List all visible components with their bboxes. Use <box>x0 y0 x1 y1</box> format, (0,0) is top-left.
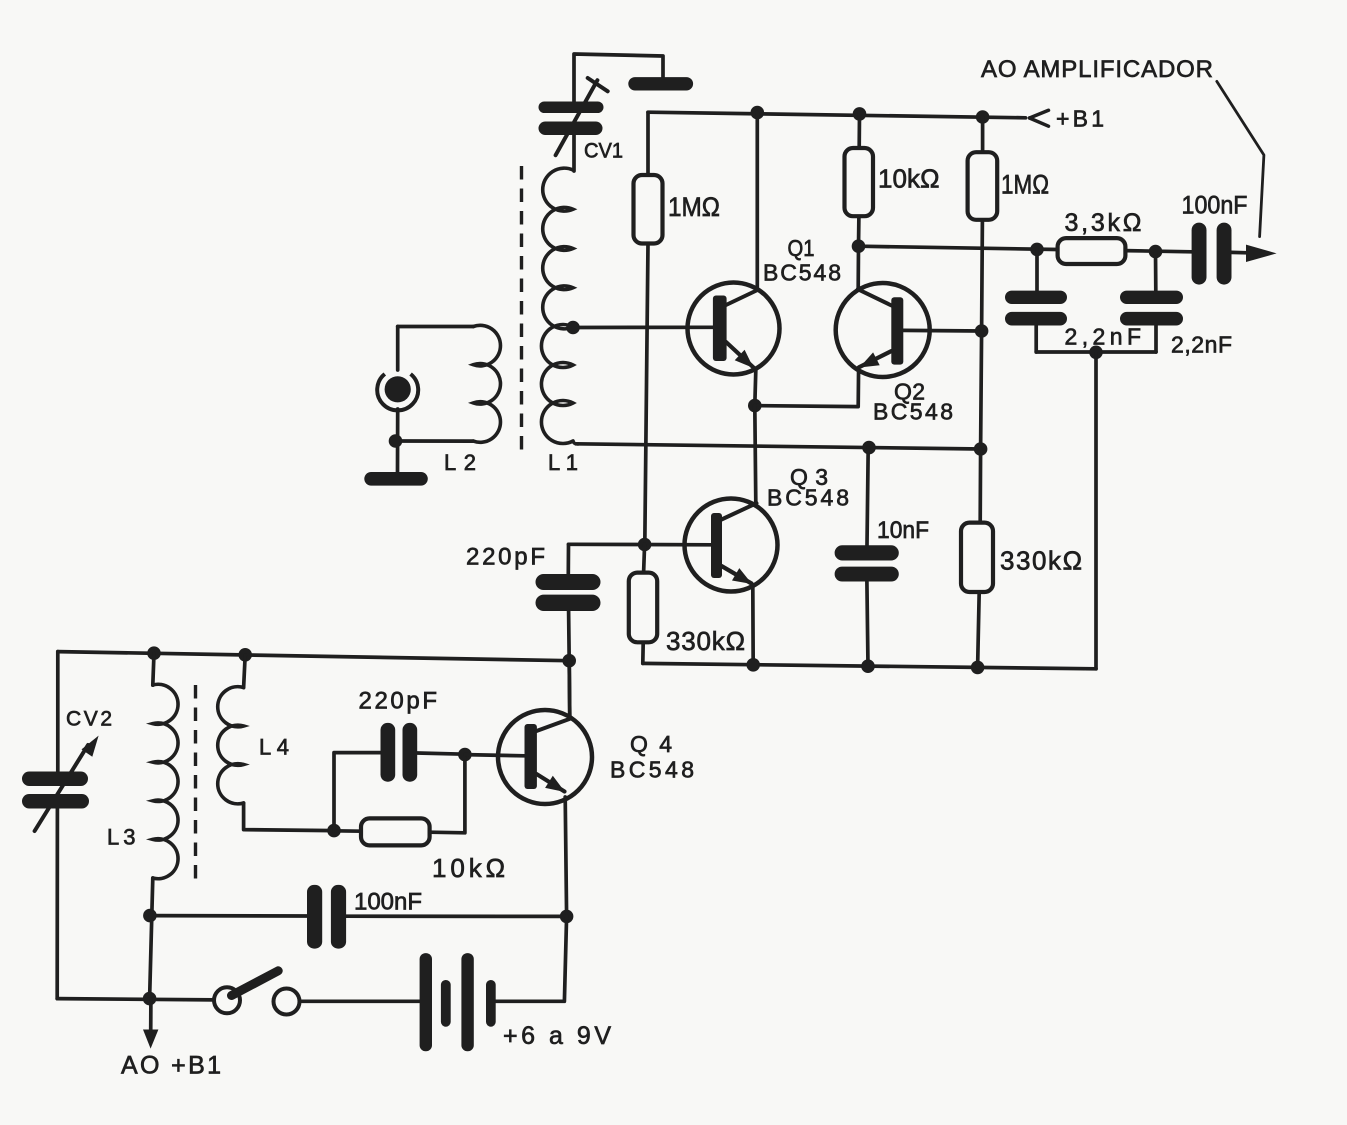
svg-text:100nF: 100nF <box>1182 192 1248 220</box>
svg-text:BC548: BC548 <box>873 399 953 425</box>
svg-text:1MΩ: 1MΩ <box>1001 170 1049 200</box>
svg-text:1MΩ: 1MΩ <box>668 192 720 222</box>
svg-text:10kΩ: 10kΩ <box>432 853 505 883</box>
svg-text:2,2nF: 2,2nF <box>1065 324 1142 350</box>
svg-text:Q1: Q1 <box>788 235 815 261</box>
svg-text:3,3kΩ: 3,3kΩ <box>1065 209 1142 237</box>
svg-text:CV1: CV1 <box>584 140 623 163</box>
svg-text:CV2: CV2 <box>66 708 112 731</box>
svg-text:BC548: BC548 <box>610 757 694 783</box>
svg-text:100nF: 100nF <box>354 889 422 916</box>
svg-text:330kΩ: 330kΩ <box>666 626 745 656</box>
svg-text:330kΩ: 330kΩ <box>1000 546 1082 576</box>
svg-text:220pF: 220pF <box>466 544 545 571</box>
svg-text:220pF: 220pF <box>359 688 438 715</box>
svg-text:AO AMPLIFICADOR: AO AMPLIFICADOR <box>981 56 1213 83</box>
svg-text:10kΩ: 10kΩ <box>878 164 940 194</box>
svg-text:+B1: +B1 <box>1056 106 1104 132</box>
svg-text:BC548: BC548 <box>763 260 841 286</box>
svg-text:BC548: BC548 <box>767 485 849 511</box>
svg-text:2,2nF: 2,2nF <box>1171 332 1232 358</box>
svg-text:10nF: 10nF <box>877 517 929 544</box>
